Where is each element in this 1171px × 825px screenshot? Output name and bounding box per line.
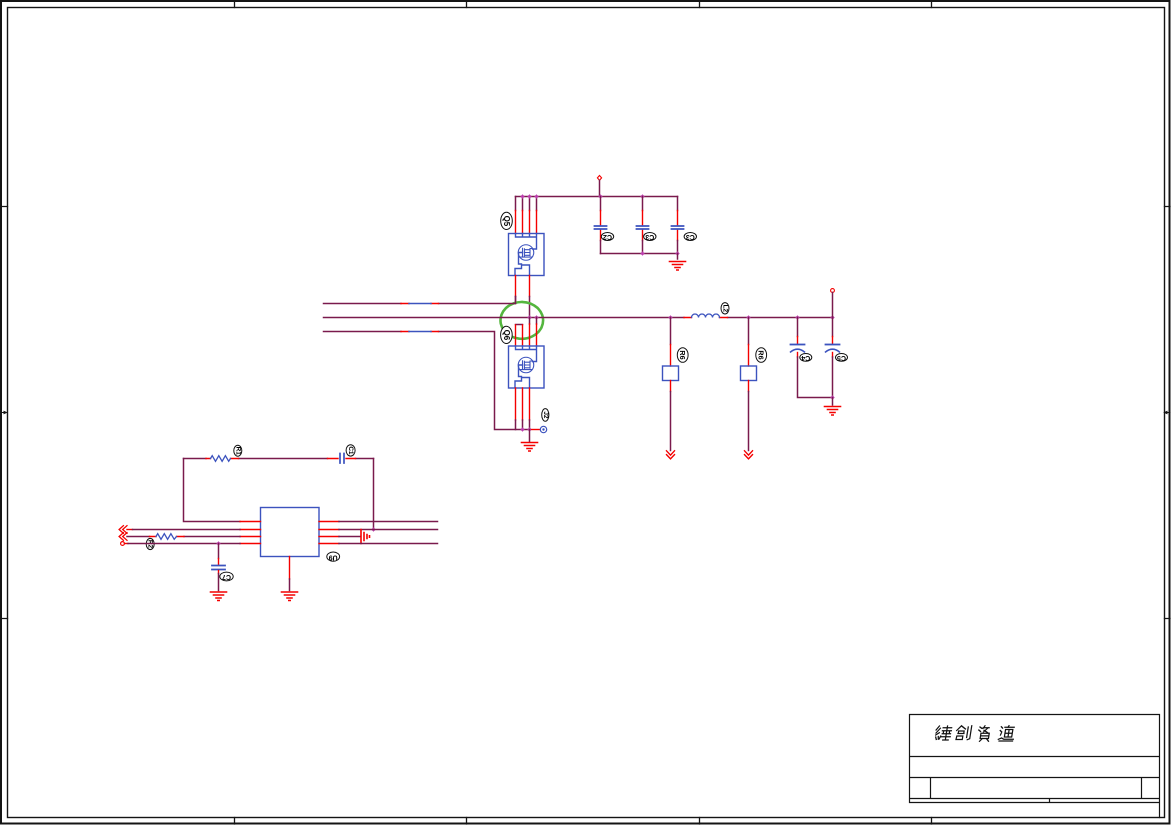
wire: output row2 bbox=[339, 529, 438, 531]
wire: output row4 bbox=[339, 543, 438, 545]
wire: bus line 1 bbox=[324, 297, 516, 304]
balloon label L2 bbox=[721, 303, 729, 314]
IC U9 (regulator) bbox=[261, 508, 320, 557]
svg-text:C4: C4 bbox=[801, 354, 810, 361]
off-page arrow (left, row2) bbox=[119, 526, 127, 534]
balloon label C5 bbox=[836, 354, 848, 362]
green annotation circle bbox=[501, 302, 544, 339]
svg-text:Q6: Q6 bbox=[502, 330, 511, 341]
balloon label R2 bbox=[146, 538, 154, 549]
junction dots on source net bbox=[520, 427, 531, 431]
ground (sideways, row3) bbox=[361, 530, 370, 544]
net colour segment on bus line 1 bbox=[401, 303, 439, 305]
connector terminal (row4) bbox=[121, 542, 125, 546]
wire: input row2 bbox=[127, 529, 133, 531]
title block bbox=[910, 715, 1160, 818]
svg-text:R1: R1 bbox=[234, 447, 241, 456]
ground (under C7) bbox=[211, 592, 227, 601]
resistor R1 (feedback) bbox=[206, 458, 239, 460]
company name 緯創資通 (drawn strokes) bbox=[934, 726, 1015, 742]
wire: output row1 bbox=[339, 521, 438, 523]
capacitor C4 (polarized, x=797.5) bbox=[797, 318, 799, 337]
balloon label C4 bbox=[800, 354, 812, 362]
svg-text:C7: C7 bbox=[222, 573, 231, 580]
svg-text:C2: C2 bbox=[603, 233, 612, 240]
wire: bus line 2 (phase) bbox=[324, 317, 833, 319]
IC left pin leads bbox=[240, 522, 261, 544]
resistor pack R7 (right drop) bbox=[748, 318, 750, 345]
balloon label R7 bbox=[756, 348, 767, 363]
junction dots on top rail bbox=[520, 194, 644, 198]
balloon label J2 bbox=[542, 409, 549, 422]
svg-text:C5: C5 bbox=[837, 354, 846, 361]
off-page arrow (down, right) bbox=[745, 451, 753, 459]
wire: bus line 3 bbox=[324, 332, 530, 430]
svg-text:C3: C3 bbox=[686, 233, 695, 240]
svg-text:U9: U9 bbox=[329, 553, 338, 560]
wire: Q5 source pin right down to phase bus bbox=[529, 276, 531, 297]
wire: Q5 source pin left to bus1 bbox=[515, 276, 517, 297]
wire: capacitor bottom rail bbox=[601, 253, 678, 255]
svg-text:R6: R6 bbox=[678, 350, 687, 359]
wire: input row4 bbox=[128, 543, 240, 545]
transistor Q5 (upper MOSFET block) bbox=[509, 234, 545, 276]
svg-text:R6: R6 bbox=[757, 350, 766, 359]
capacitor C2 (x=600) bbox=[600, 197, 602, 211]
ground (under Q6 source) bbox=[529, 430, 531, 442]
junction dot row4 bbox=[216, 541, 220, 545]
capacitor C1 (feedback) bbox=[328, 458, 356, 460]
balloon label R6 bbox=[677, 348, 688, 363]
power node (right) bbox=[831, 289, 835, 293]
balloon label C7 bbox=[220, 572, 233, 581]
ground (under U9) bbox=[282, 592, 298, 601]
off-page arrow (down, left) bbox=[667, 451, 675, 459]
capacitor C7 (input bypass) bbox=[218, 544, 220, 559]
wire: top drain rail bbox=[516, 196, 678, 198]
transistor Q6 (lower MOSFET block) bbox=[509, 346, 545, 388]
svg-text:L2: L2 bbox=[722, 305, 729, 313]
capacitor C3 (x=642.5) bbox=[642, 197, 644, 211]
wire: row3 to ground bbox=[339, 536, 361, 538]
junction dots on phase bus bbox=[527, 315, 834, 319]
svg-text:C3: C3 bbox=[645, 233, 654, 240]
wire: input row3 + resistor R2 bbox=[127, 536, 240, 538]
balloon label C3b bbox=[684, 233, 696, 241]
svg-text:J2: J2 bbox=[542, 411, 549, 419]
balloon label C2 bbox=[601, 233, 613, 241]
wire: feedback left vertical bbox=[184, 459, 241, 522]
wire: feedback right vertical bbox=[373, 459, 375, 530]
wire: Q6 gate jumper bbox=[516, 324, 523, 326]
IC ground pin bbox=[289, 557, 291, 580]
power node +V (top) bbox=[597, 176, 601, 181]
ground (under C3b) bbox=[677, 254, 679, 260]
balloon label Q5 bbox=[501, 212, 513, 229]
net colour segment on bus line 3 bbox=[401, 331, 439, 333]
capacitor C3b (x=677.5) bbox=[677, 197, 679, 211]
resistor pack R6 (left drop) bbox=[670, 318, 672, 345]
junction dot feedback/pin2 bbox=[371, 527, 375, 531]
IC right pin leads bbox=[319, 522, 339, 544]
wire: power node to top rail bbox=[599, 180, 601, 196]
wire: Q5 drain pins to rail bbox=[516, 197, 537, 211]
resistor R2 bbox=[156, 534, 177, 540]
balloon label C3 bbox=[644, 233, 656, 241]
balloon label R1 bbox=[234, 445, 242, 456]
svg-text:C1: C1 bbox=[347, 446, 354, 455]
inductor L2 bbox=[684, 317, 728, 319]
capacitor C5 (polarized, x=832.5) bbox=[832, 318, 834, 337]
svg-text:Q5: Q5 bbox=[502, 216, 511, 227]
connector pin J2 bbox=[532, 429, 541, 431]
junction dots bottom rail bbox=[640, 251, 679, 255]
balloon label Q6 bbox=[501, 326, 513, 343]
wire: feedback top rail bbox=[184, 458, 374, 460]
wire: Q6 source pins down bbox=[516, 388, 530, 420]
wire: phase to Q6 drain pins bbox=[530, 318, 537, 325]
ground (right caps) bbox=[832, 398, 834, 406]
balloon label U9 bbox=[327, 552, 340, 561]
off-page arrow (left, row3) bbox=[119, 533, 127, 541]
balloon label C1 bbox=[346, 445, 355, 456]
junction dot (cap return) bbox=[830, 395, 834, 399]
